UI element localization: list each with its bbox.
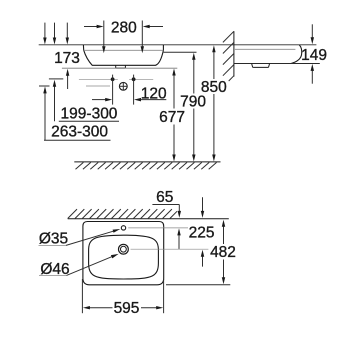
svg-text:225: 225 bbox=[189, 225, 215, 242]
svg-text:65: 65 bbox=[156, 189, 173, 206]
svg-text:850: 850 bbox=[201, 79, 227, 96]
svg-text:263-300: 263-300 bbox=[51, 124, 108, 141]
svg-text:149: 149 bbox=[301, 47, 327, 64]
svg-text:677: 677 bbox=[159, 109, 185, 126]
svg-text:790: 790 bbox=[180, 93, 206, 110]
svg-text:120: 120 bbox=[141, 86, 167, 103]
svg-text:482: 482 bbox=[210, 244, 236, 261]
svg-text:199-300: 199-300 bbox=[61, 106, 118, 123]
svg-text:280: 280 bbox=[111, 19, 137, 36]
svg-text:173: 173 bbox=[54, 50, 80, 67]
svg-text:595: 595 bbox=[114, 300, 140, 317]
